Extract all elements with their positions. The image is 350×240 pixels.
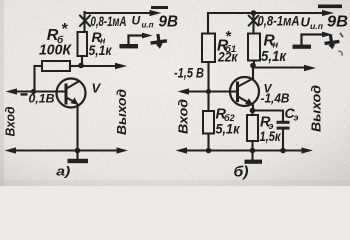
label: base voltage 0,1В a	[21, 92, 55, 106]
wire: collector down b	[252, 66, 254, 79]
label Rб* a	[47, 21, 68, 46]
node: base junction blob b	[206, 89, 211, 94]
ground a	[68, 151, 89, 164]
node: Rб2-rail junction	[206, 148, 212, 154]
power: chassis arrow cross symbol b	[324, 34, 343, 56]
power: chassis arrow cross symbol a	[150, 34, 168, 49]
node: collector node b	[250, 63, 256, 69]
node: collector node a (dot)	[78, 63, 84, 69]
wire: emitter down to node b	[252, 106, 254, 111]
resistor Rб2	[203, 92, 214, 151]
wire: base line with input arrow b	[178, 88, 237, 94]
resistor Rн b	[248, 34, 260, 61]
label Rэ	[260, 115, 274, 132]
label Сэ	[285, 105, 299, 123]
node: base junction blob a	[31, 89, 36, 94]
wire: output line with arrow b	[253, 65, 316, 71]
capacitor Сэ	[253, 111, 290, 151]
transistor V b (NPN)	[230, 77, 259, 106]
wire: bottom rail b with arrows	[176, 147, 314, 153]
resistor Rэ	[247, 111, 258, 151]
ground: supply minus chassis bracket a	[120, 33, 153, 49]
wire: Rн bottom stub a	[81, 56, 83, 63]
resistor Rб1	[202, 34, 215, 63]
transistor V a (NPN)	[57, 79, 86, 108]
wire: rail corner down to Rн a	[83, 12, 85, 32]
label: supply voltage U_и.п 9В b	[301, 14, 349, 32]
wire: output line with arrow a	[81, 63, 127, 69]
label Rб1*	[217, 28, 236, 55]
node: emitter-rail junction a	[75, 148, 81, 154]
resistor Rб (feedback bias) a	[35, 61, 80, 89]
wire: +supply top rail b with arrow	[208, 5, 342, 17]
wire: Rн top stub b	[252, 13, 254, 34]
wire: rail corner down to Rб1	[207, 13, 209, 34]
wire: emitter down a	[76, 105, 78, 151]
ground b	[245, 151, 263, 164]
node: Rэ-rail junction	[250, 148, 256, 154]
wire: bottom rail a with arrows	[5, 147, 129, 153]
resistor Rн (load) a	[78, 32, 88, 56]
wire: +supply top rail a with arrow	[85, 6, 169, 16]
node: rail-Rн junction b	[251, 10, 257, 16]
label: current 0,8-1мА with break mark b	[249, 13, 300, 29]
ground: supply minus chassis bracket b	[293, 32, 333, 49]
label Rн b	[264, 33, 279, 51]
label Rб2	[216, 107, 235, 124]
node: emitter node b	[250, 108, 256, 114]
node: Сэ-rail junction	[280, 148, 286, 154]
wire: Rн bottom stub b	[253, 61, 255, 64]
wire: base line with input arrow a	[6, 88, 65, 94]
label: supply voltage U_и.п 9В a	[132, 14, 179, 31]
label: collector current 0,8-1мА with break mark x	[80, 13, 127, 29]
label Rн a	[92, 29, 107, 46]
